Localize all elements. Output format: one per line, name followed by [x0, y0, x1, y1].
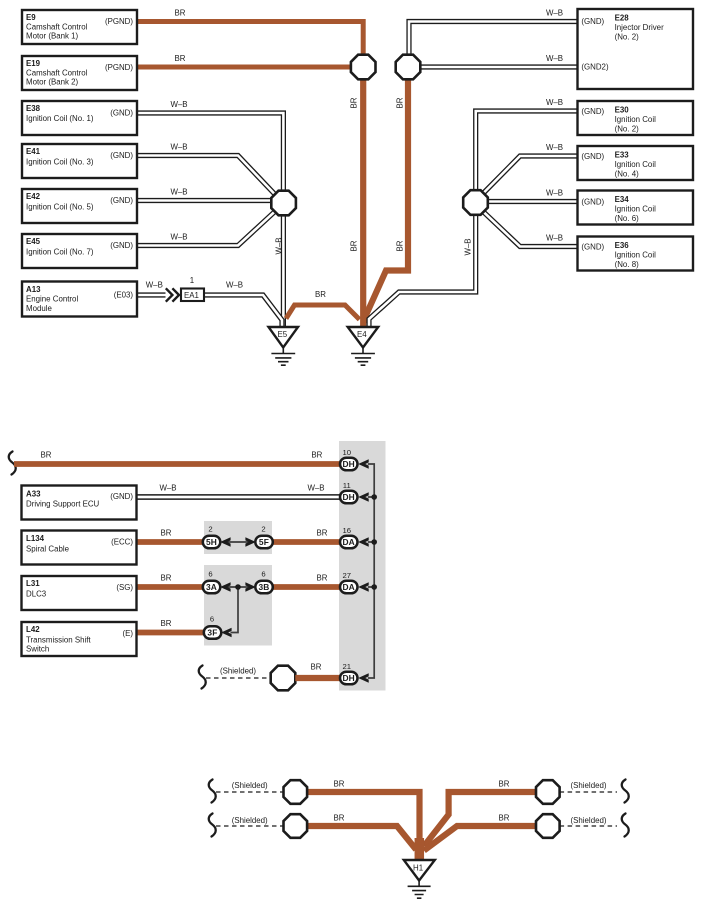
- svg-text:(GND): (GND): [110, 151, 133, 160]
- svg-text:BR: BR: [499, 814, 510, 823]
- svg-text:(PGND): (PGND): [105, 17, 133, 26]
- svg-text:L42: L42: [26, 625, 40, 634]
- shield octagon bottom right B: [536, 814, 560, 838]
- box E42: [22, 189, 137, 223]
- ground E5: [269, 327, 299, 365]
- svg-text:E33: E33: [615, 150, 630, 159]
- box E33: [578, 146, 694, 180]
- svg-text:L134: L134: [26, 534, 45, 543]
- svg-text:BR: BR: [161, 529, 172, 538]
- svg-text:Camshaft Control: Camshaft Control: [26, 68, 88, 77]
- wire BR E19 to O1: [137, 65, 355, 70]
- dashed shield wire row 21: [206, 677, 272, 679]
- svg-text:E30: E30: [615, 105, 630, 114]
- svg-text:E41: E41: [26, 147, 41, 156]
- wire W-B left trunk O4 to E5: [281, 210, 286, 328]
- svg-text:(ECC): (ECC): [111, 537, 133, 546]
- box E34: [578, 191, 694, 225]
- wire BR 5F to DA16: [270, 539, 341, 545]
- gray band: right connector column: [339, 441, 386, 691]
- svg-text:L31: L31: [26, 579, 40, 588]
- junction octagon O4: [271, 191, 296, 216]
- svg-text:3B: 3B: [258, 582, 269, 592]
- svg-text:Ignition Coil (No. 5): Ignition Coil (No. 5): [26, 203, 94, 212]
- svg-text:(No. 2): (No. 2): [615, 124, 639, 133]
- svg-text:W–B: W–B: [170, 143, 187, 152]
- svg-text:(No. 6): (No. 6): [615, 214, 639, 223]
- EA1 chevrons: [166, 288, 179, 301]
- wire BR strap E5 to E4: [286, 305, 360, 320]
- svg-text:Camshaft Control: Camshaft Control: [26, 22, 88, 31]
- svg-text:16: 16: [343, 526, 352, 535]
- svg-text:6: 6: [210, 615, 214, 624]
- svg-text:(Shielded): (Shielded): [232, 816, 268, 825]
- svg-text:(Shielded): (Shielded): [571, 816, 607, 825]
- svg-text:(E03): (E03): [114, 290, 134, 299]
- svg-text:W–B: W–B: [307, 484, 324, 493]
- svg-text:E42: E42: [26, 192, 41, 201]
- wire BR row 10: [14, 461, 341, 467]
- svg-text:(GND): (GND): [581, 197, 604, 206]
- svg-text:W–B: W–B: [275, 237, 284, 254]
- svg-text:(GND): (GND): [581, 17, 604, 26]
- svg-text:(GND): (GND): [110, 492, 133, 501]
- svg-text:W–B: W–B: [546, 189, 563, 198]
- 5H/5F mating pair: [203, 525, 273, 549]
- wire W-B E41: [137, 156, 277, 197]
- svg-text:BR: BR: [161, 574, 172, 583]
- svg-text:W–B: W–B: [170, 100, 187, 109]
- svg-text:DA: DA: [342, 582, 355, 592]
- svg-text:2: 2: [208, 525, 212, 534]
- EA1 box: [181, 289, 204, 302]
- svg-text:Transmission Shift: Transmission Shift: [26, 635, 91, 644]
- shield octagon bottom right A: [536, 780, 560, 804]
- svg-text:W–B: W–B: [159, 484, 176, 493]
- svg-text:BR: BR: [334, 780, 345, 789]
- svg-text:21: 21: [343, 662, 352, 671]
- svg-text:Injector Driver: Injector Driver: [615, 23, 664, 32]
- svg-text:BR: BR: [334, 814, 345, 823]
- squiggle row 10: [9, 452, 16, 475]
- svg-text:(GND): (GND): [581, 152, 604, 161]
- svg-text:(SG): (SG): [116, 583, 133, 592]
- svg-text:(GND): (GND): [581, 242, 604, 251]
- svg-text:W–B: W–B: [546, 234, 563, 243]
- svg-text:W–B: W–B: [146, 281, 163, 290]
- wire BR L134 to 5H: [137, 539, 206, 545]
- svg-text:Ignition Coil: Ignition Coil: [615, 115, 656, 124]
- svg-text:(No. 8): (No. 8): [615, 260, 639, 269]
- svg-text:BR: BR: [41, 451, 52, 460]
- H1 trunk: [415, 838, 425, 860]
- squiggle row 21: [199, 666, 206, 689]
- wire W-B E28 GND: [409, 22, 578, 61]
- box L134: [22, 531, 137, 565]
- wire BR row 21: [295, 675, 341, 681]
- svg-text:W–B: W–B: [546, 98, 563, 107]
- dashed wire bottom right A: [560, 791, 617, 793]
- wire W-B E38: [137, 113, 283, 196]
- box E41: [22, 144, 137, 178]
- svg-text:E36: E36: [615, 241, 630, 250]
- wire BR bottom right B: [424, 826, 537, 851]
- svg-text:BR: BR: [317, 574, 328, 583]
- svg-text:H1: H1: [413, 864, 423, 873]
- svg-text:(E): (E): [122, 629, 133, 638]
- wire W-B E36: [482, 211, 578, 247]
- svg-text:BR: BR: [315, 290, 326, 299]
- shield octagon row 21: [271, 666, 296, 691]
- squiggle bottom left B: [209, 814, 216, 837]
- svg-text:(GND): (GND): [110, 108, 133, 117]
- bus dot row 27: [371, 584, 377, 590]
- svg-text:W–B: W–B: [546, 54, 563, 63]
- svg-text:W–B: W–B: [464, 238, 473, 255]
- svg-text:DH: DH: [342, 492, 355, 502]
- squiggle bottom right B: [622, 814, 629, 837]
- 3A/3B mating pair with branch: [203, 570, 273, 633]
- wire BR bottom left A to H1 trunk: [306, 792, 420, 845]
- svg-text:(GND): (GND): [110, 196, 133, 205]
- svg-text:E34: E34: [615, 195, 630, 204]
- svg-text:27: 27: [343, 571, 352, 580]
- svg-text:DH: DH: [342, 459, 355, 469]
- svg-text:(PGND): (PGND): [105, 63, 133, 72]
- svg-text:BR: BR: [161, 619, 172, 628]
- svg-text:1: 1: [190, 276, 194, 285]
- svg-text:DLC3: DLC3: [26, 590, 47, 599]
- wire BR from O2 down to E4: [365, 72, 408, 323]
- wire BR L31 to 3A: [137, 584, 206, 590]
- svg-text:EA1: EA1: [184, 291, 199, 300]
- svg-text:E9: E9: [26, 13, 36, 22]
- svg-text:E28: E28: [615, 13, 630, 22]
- svg-text:BR: BR: [350, 97, 359, 108]
- svg-text:Motor (Bank 1): Motor (Bank 1): [26, 32, 79, 41]
- shield octagon bottom left B: [284, 814, 308, 838]
- svg-text:10: 10: [343, 448, 352, 457]
- pin 16 DA: [340, 526, 369, 548]
- junction octagon O1: [351, 55, 376, 80]
- dashed wire bottom left A: [216, 791, 284, 793]
- svg-text:6: 6: [261, 570, 265, 579]
- svg-text:Ignition Coil: Ignition Coil: [615, 205, 656, 214]
- svg-text:BR: BR: [317, 529, 328, 538]
- svg-text:Module: Module: [26, 304, 52, 313]
- wire W-B EA1 to E5: [204, 295, 282, 328]
- svg-text:BR: BR: [175, 9, 186, 18]
- svg-text:(GND): (GND): [581, 107, 604, 116]
- ground H1: [404, 860, 435, 898]
- box E19: [22, 56, 137, 90]
- pin 21 DH: [340, 662, 369, 684]
- dashed wire bottom left B: [216, 825, 284, 827]
- svg-text:(No. 4): (No. 4): [615, 169, 639, 178]
- svg-text:(No. 2): (No. 2): [615, 32, 639, 41]
- box E28: [578, 9, 694, 89]
- svg-text:(GND): (GND): [110, 241, 133, 250]
- pin 11 DH: [340, 481, 369, 503]
- box L42: [22, 622, 137, 656]
- wire BR trunk O1 to E4: [360, 62, 366, 326]
- svg-text:E5: E5: [278, 330, 288, 339]
- ground E4: [348, 327, 379, 365]
- bus dot row 16: [371, 539, 377, 545]
- svg-text:Switch: Switch: [26, 645, 49, 654]
- svg-text:E19: E19: [26, 59, 41, 68]
- bus dot row 11: [371, 494, 377, 500]
- dashed wire bottom right B: [560, 825, 617, 827]
- box E38: [22, 101, 137, 135]
- svg-text:A13: A13: [26, 285, 41, 294]
- wire BR bottom right A: [424, 792, 537, 846]
- pin 27 DA: [340, 571, 369, 593]
- svg-text:(Shielded): (Shielded): [220, 667, 256, 676]
- squiggle bottom right A: [622, 780, 629, 803]
- svg-text:DA: DA: [342, 537, 355, 547]
- svg-text:DH: DH: [342, 673, 355, 683]
- shield octagon bottom left A: [284, 780, 308, 804]
- connector bus: [368, 464, 374, 678]
- svg-text:(Shielded): (Shielded): [571, 781, 607, 790]
- svg-text:W–B: W–B: [226, 281, 243, 290]
- svg-text:Ignition Coil (No. 3): Ignition Coil (No. 3): [26, 158, 94, 167]
- svg-text:E45: E45: [26, 237, 41, 246]
- svg-text:6: 6: [208, 570, 212, 579]
- svg-text:5F: 5F: [259, 537, 269, 547]
- box A33: [22, 486, 137, 520]
- svg-text:BR: BR: [311, 451, 322, 460]
- box E9: [22, 10, 137, 44]
- gray box 5H/5F: [204, 521, 272, 554]
- box E36: [578, 237, 694, 271]
- wire W-B E42: [137, 198, 272, 203]
- wire W-B E28 GND2: [415, 64, 578, 69]
- svg-text:E38: E38: [26, 104, 41, 113]
- box E30: [578, 101, 694, 135]
- wire BR 3B to DA27: [270, 584, 341, 590]
- svg-text:A33: A33: [26, 490, 41, 499]
- wire BR bottom left B: [306, 826, 416, 850]
- box E45: [22, 234, 137, 268]
- svg-text:Motor (Bank 2): Motor (Bank 2): [26, 78, 79, 87]
- svg-text:2: 2: [261, 525, 265, 534]
- wire W-B E34: [479, 199, 578, 204]
- svg-text:W–B: W–B: [170, 188, 187, 197]
- wire W-B right trunk O3 to E4: [369, 208, 476, 327]
- squiggle bottom left A: [209, 780, 216, 803]
- box L31: [22, 576, 137, 610]
- svg-text:(GND2): (GND2): [581, 62, 609, 71]
- junction octagon O2: [396, 55, 421, 80]
- gray box 3A/3B/3F: [204, 565, 272, 646]
- svg-text:Ignition Coil: Ignition Coil: [615, 160, 656, 169]
- junction octagon O3: [463, 190, 488, 215]
- wire W-B A13 to EA1: [137, 292, 166, 297]
- 3F pin: [204, 615, 232, 639]
- wire BR L42 to 3F: [137, 630, 206, 636]
- svg-text:W–B: W–B: [546, 143, 563, 152]
- svg-text:E4: E4: [357, 330, 367, 339]
- svg-text:W–B: W–B: [170, 233, 187, 242]
- svg-text:Ignition Coil (No. 1): Ignition Coil (No. 1): [26, 114, 94, 123]
- svg-text:Spiral Cable: Spiral Cable: [26, 545, 70, 554]
- svg-text:Ignition Coil (No. 7): Ignition Coil (No. 7): [26, 248, 94, 257]
- svg-text:3A: 3A: [206, 582, 217, 592]
- svg-text:BR: BR: [311, 663, 322, 672]
- svg-text:Ignition Coil: Ignition Coil: [615, 251, 656, 260]
- svg-text:BR: BR: [396, 97, 405, 108]
- svg-text:BR: BR: [350, 240, 359, 251]
- svg-text:BR: BR: [396, 240, 405, 251]
- svg-text:Driving Support ECU: Driving Support ECU: [26, 500, 100, 509]
- wire BR E9 to O1: [137, 22, 363, 55]
- wire W-B E45: [137, 210, 277, 246]
- svg-text:(Shielded): (Shielded): [232, 781, 268, 790]
- svg-text:3F: 3F: [207, 628, 217, 638]
- wire W-B E33: [482, 156, 578, 195]
- svg-text:BR: BR: [499, 780, 510, 789]
- pin 10 DH: [340, 448, 369, 470]
- svg-text:W–B: W–B: [546, 9, 563, 18]
- svg-text:11: 11: [343, 481, 351, 490]
- svg-text:BR: BR: [175, 54, 186, 63]
- svg-text:Engine Control: Engine Control: [26, 295, 78, 304]
- wire W-B A33: [137, 494, 341, 500]
- wire W-B E30: [476, 111, 578, 196]
- svg-text:5H: 5H: [206, 537, 217, 547]
- box A13: [22, 282, 137, 317]
